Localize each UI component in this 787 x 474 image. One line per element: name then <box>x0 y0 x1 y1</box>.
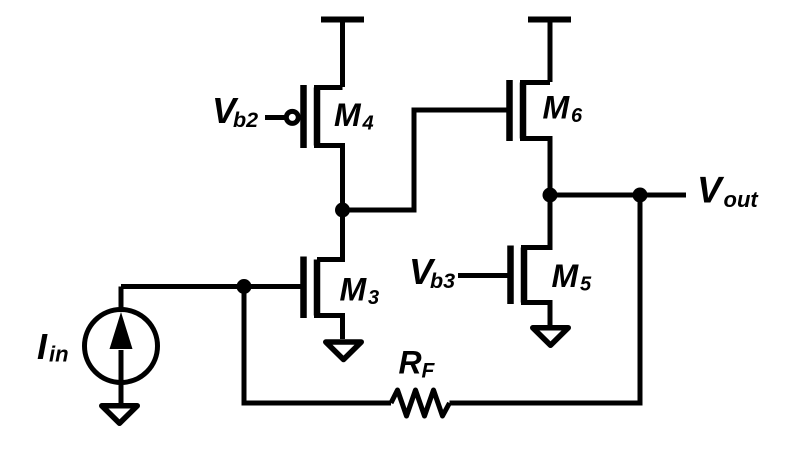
pmos M6 <box>510 80 551 195</box>
supply rail VDD (above M6) <box>528 20 571 83</box>
label M4 <box>334 97 374 135</box>
svg-text:in: in <box>49 342 69 367</box>
nmos M3 <box>304 210 343 339</box>
nmos M5 <box>511 195 551 325</box>
svg-text:V: V <box>697 170 725 211</box>
feedback wire right <box>450 195 641 403</box>
label Iin <box>37 326 69 367</box>
wire node A to M6 gate <box>343 110 507 210</box>
ground (below M3) <box>326 342 362 360</box>
wire Vb3 to M5 gate <box>458 273 508 278</box>
label Vb2 <box>212 90 258 132</box>
node B (input) <box>237 279 252 294</box>
ground (below Iin) <box>102 406 138 424</box>
svg-text:R: R <box>399 345 422 381</box>
wire output <box>550 193 686 198</box>
label Vout <box>697 170 759 213</box>
label M5 <box>552 258 593 296</box>
svg-text:3: 3 <box>368 287 379 309</box>
resistor RF <box>391 390 450 416</box>
wire input node to M3 gate <box>121 284 301 289</box>
svg-text:4: 4 <box>362 113 374 135</box>
svg-text:b3: b3 <box>430 269 455 293</box>
svg-text:6: 6 <box>571 105 583 127</box>
svg-text:out: out <box>724 187 760 212</box>
svg-text:I: I <box>37 326 48 367</box>
svg-text:F: F <box>422 360 436 383</box>
pmos M4 <box>286 85 342 210</box>
label RF <box>399 345 436 383</box>
ground (below M5) <box>533 328 569 346</box>
node output (M6 drain / M5 drain) <box>543 188 558 203</box>
supply rail VDD (above M4) <box>321 20 364 88</box>
svg-text:M: M <box>334 97 362 133</box>
svg-text:M: M <box>552 258 580 294</box>
label Vb3 <box>409 251 455 293</box>
label M6 <box>543 90 584 128</box>
wire Vb2 to M4 gate <box>265 115 286 120</box>
svg-text:b2: b2 <box>233 108 258 132</box>
node output tap <box>633 188 648 203</box>
svg-text:M: M <box>340 272 368 308</box>
node A (M4 drain / M3 drain) <box>335 203 350 218</box>
label M3 <box>340 272 380 310</box>
svg-text:M: M <box>543 90 571 126</box>
current source Iin <box>85 287 158 404</box>
feedback wire left <box>244 287 391 404</box>
svg-text:5: 5 <box>580 274 592 296</box>
